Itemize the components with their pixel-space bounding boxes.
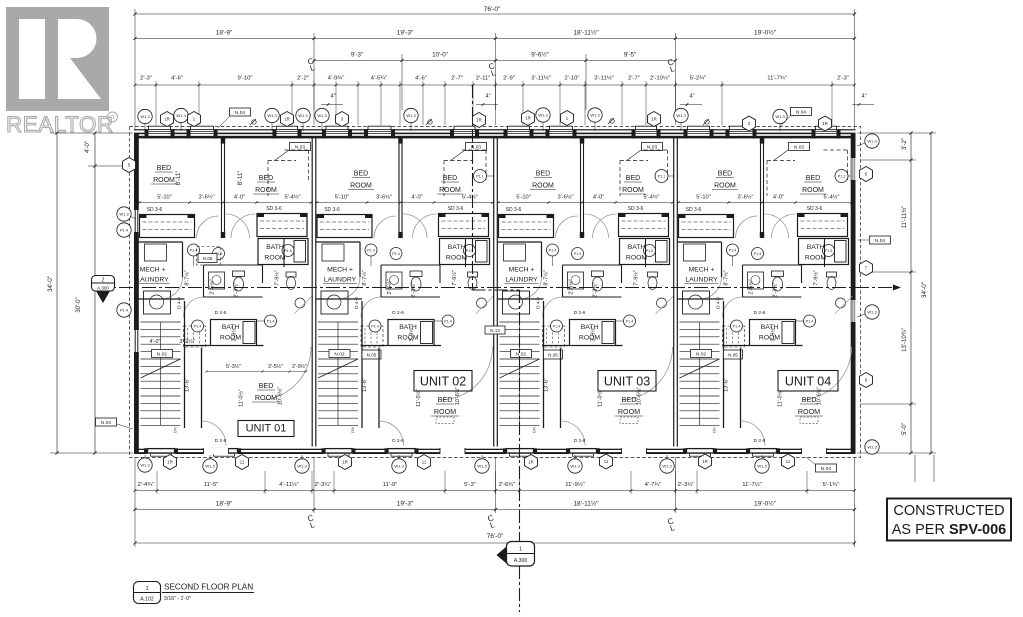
dashed closet outline unit 01 xyxy=(268,160,296,162)
tag W1.3 top at 181 xyxy=(180,123,182,132)
svg-text:LAUNDRY: LAUNDRY xyxy=(324,277,357,284)
svg-text:3'-2": 3'-2" xyxy=(902,138,908,150)
washer dryer unit 02 xyxy=(321,291,348,314)
svg-text:N.04: N.04 xyxy=(821,466,831,472)
dimension row overall 76ft bottom xyxy=(135,542,855,544)
bedroom walls unit 03 xyxy=(560,348,562,428)
svg-text:8'-7½": 8'-7½" xyxy=(361,270,368,285)
WC fixtures unit 01 xyxy=(209,272,225,289)
svg-text:D 2-6: D 2-6 xyxy=(574,310,586,316)
WC fixtures unit 04 xyxy=(748,272,764,289)
tag 1 top at 567 xyxy=(561,111,574,126)
svg-text:P1.5: P1.5 xyxy=(825,249,832,253)
WC room unit 02 xyxy=(381,264,440,266)
svg-text:2'-3": 2'-3" xyxy=(837,76,849,82)
bedroom door arc unit 02 xyxy=(441,347,493,400)
bedroom divider wall unit 03 xyxy=(580,138,582,238)
bedroom door arc unit 04 xyxy=(803,347,852,400)
svg-text:1R: 1R xyxy=(528,460,534,465)
svg-text:10'-6½": 10'-6½" xyxy=(454,387,461,405)
tag W1.3 top at 595 xyxy=(594,122,596,131)
dimension column segments right xyxy=(910,133,912,453)
svg-text:2'-10": 2'-10" xyxy=(564,76,579,82)
closet right unit 01 xyxy=(257,214,307,237)
bedroom dim string unit 01 xyxy=(207,371,307,373)
svg-text:DN: DN xyxy=(532,427,537,433)
P1.1 circle unit 04 xyxy=(835,170,848,183)
svg-text:4'-0": 4'-0" xyxy=(234,195,245,201)
tag 11 bottom at 424 xyxy=(418,455,431,470)
svg-text:P1.1: P1.1 xyxy=(658,175,665,179)
svg-text:W1.3: W1.3 xyxy=(538,113,548,118)
svg-text:ROOM: ROOM xyxy=(798,407,820,416)
stair enclosure unit 03 xyxy=(543,301,545,428)
svg-text:2'-9": 2'-9" xyxy=(503,76,515,82)
svg-text:2'-3¼": 2'-3¼" xyxy=(678,482,695,488)
svg-text:N.02: N.02 xyxy=(157,351,167,357)
svg-text:P1.4: P1.4 xyxy=(120,308,129,313)
dimension row detail bottom xyxy=(135,490,855,492)
svg-text:W1.3: W1.3 xyxy=(775,114,785,119)
svg-text:SD 3-6: SD 3-6 xyxy=(506,207,522,213)
svg-text:7'-9½": 7'-9½" xyxy=(451,270,458,285)
washer dryer unit 01 xyxy=(144,291,171,314)
hall arc mid unit 03 xyxy=(543,297,563,317)
powder wall unit 02 xyxy=(465,238,467,267)
svg-text:ROOM: ROOM xyxy=(255,187,277,194)
svg-text:A.300: A.300 xyxy=(514,558,528,564)
svg-text:1R: 1R xyxy=(476,118,482,123)
svg-text:8'-7½": 8'-7½" xyxy=(184,270,191,285)
svg-text:2'-5½": 2'-5½" xyxy=(748,279,755,294)
svg-text:2'-2": 2'-2" xyxy=(297,76,309,82)
stair enclosure unit 04 xyxy=(723,301,725,428)
svg-text:D 2-6: D 2-6 xyxy=(754,310,766,316)
svg-text:P1.5: P1.5 xyxy=(646,249,653,253)
svg-text:P1.4: P1.4 xyxy=(806,320,813,324)
svg-text:4'-0": 4'-0" xyxy=(593,195,604,201)
mech door arc unit 01 xyxy=(161,277,183,299)
svg-text:P1.1: P1.1 xyxy=(476,175,483,179)
bedroom door arc right of divider unit 02 xyxy=(403,214,427,238)
mech door arc unit 03 xyxy=(520,277,542,299)
svg-text:9'-10": 9'-10" xyxy=(237,76,252,82)
tag 11 bottom at 788 xyxy=(782,454,795,469)
svg-text:ROOM: ROOM xyxy=(153,177,175,184)
svg-text:2'-4¾": 2'-4¾" xyxy=(138,482,155,488)
svg-text:MECH +: MECH + xyxy=(327,267,353,274)
mech room walls unit 04 xyxy=(678,241,722,243)
svg-text:ROOM: ROOM xyxy=(532,183,554,190)
svg-text:SD 3-6: SD 3-6 xyxy=(266,206,282,212)
svg-text:BED: BED xyxy=(259,381,274,390)
closet left unit 04 xyxy=(679,215,734,238)
svg-text:ROOM: ROOM xyxy=(622,187,644,194)
linen closet dashed unit 02 xyxy=(361,326,383,347)
tag W1.3 top at 272 xyxy=(271,123,273,132)
plumbing circles P1.4 unit 04 xyxy=(727,244,739,256)
tag W1.3 top at 681 xyxy=(680,123,682,132)
svg-text:7'-9½": 7'-9½" xyxy=(274,270,281,285)
svg-text:2'-3½": 2'-3½" xyxy=(592,282,599,297)
svg-text:N.03: N.03 xyxy=(794,144,804,150)
svg-text:10'-6½": 10'-6½" xyxy=(277,387,284,405)
svg-text:W1.3: W1.3 xyxy=(317,113,327,118)
svg-text:W1.3: W1.3 xyxy=(267,113,277,118)
tag W1.3 bottom at 667 xyxy=(666,455,668,459)
svg-text:BED: BED xyxy=(438,395,453,404)
svg-text:ROOM: ROOM xyxy=(446,255,467,262)
svg-text:13'-6": 13'-6" xyxy=(724,378,730,392)
lower bathroom unit 01 xyxy=(211,320,257,346)
tag 1 top at 194 xyxy=(188,112,201,127)
svg-text:SD 3-6: SD 3-6 xyxy=(448,206,464,212)
svg-text:5'-10": 5'-10" xyxy=(157,195,172,201)
svg-text:BED: BED xyxy=(802,395,817,404)
mech room walls unit 02 xyxy=(316,241,360,243)
svg-text:P1.4: P1.4 xyxy=(549,249,556,253)
svg-text:P1.4: P1.4 xyxy=(120,228,129,233)
svg-text:2'-3": 2'-3" xyxy=(140,76,152,82)
plumbing circles lower unit 02 xyxy=(369,320,381,332)
extension lines right xyxy=(857,132,936,134)
hall arc mid unit 04 xyxy=(723,297,743,317)
WC room unit 03 xyxy=(563,264,622,266)
powder fixtures unit 02 xyxy=(468,272,478,277)
svg-text:BATH: BATH xyxy=(448,244,466,251)
svg-text:11'-0½": 11'-0½" xyxy=(597,389,604,407)
bedroom walls unit 01 xyxy=(201,348,203,428)
svg-text:W1.3: W1.3 xyxy=(140,114,150,119)
svg-text:8'-11": 8'-11" xyxy=(176,171,182,186)
bottom exterior wall xyxy=(134,449,856,450)
svg-text:W1.3: W1.3 xyxy=(590,113,600,118)
N.03 note box unit 04 xyxy=(789,143,810,151)
svg-text:2'-3½": 2'-3½" xyxy=(233,282,240,297)
note N.13 box xyxy=(485,326,505,334)
svg-text:N.05: N.05 xyxy=(548,352,558,357)
svg-text:P1.4: P1.4 xyxy=(392,252,399,256)
tag W1.3 bottom at 302 xyxy=(301,455,303,459)
svg-text:5'-4½": 5'-4½" xyxy=(823,194,839,201)
svg-text:11'-11½": 11'-11½" xyxy=(901,206,908,229)
svg-text:4'-7¼": 4'-7¼" xyxy=(645,482,662,488)
svg-text:N.04: N.04 xyxy=(235,110,245,116)
svg-text:3'-5½": 3'-5½" xyxy=(268,363,283,370)
P1.1 circle unit 02 xyxy=(474,170,487,183)
tag 3 top at 749 xyxy=(743,116,756,131)
bedroom door arc right of divider unit 04 xyxy=(765,214,789,238)
svg-text:CONSTRUCTED: CONSTRUCTED xyxy=(893,503,1004,519)
svg-text:11: 11 xyxy=(604,459,609,464)
svg-text:4'-9¾": 4'-9¾" xyxy=(328,76,345,82)
dimension row unit widths top xyxy=(135,38,855,40)
svg-text:W1.3: W1.3 xyxy=(662,464,672,469)
right exterior wall xyxy=(851,133,856,453)
party wall left of unit 02 xyxy=(311,137,313,447)
svg-text:2'-5½": 2'-5½" xyxy=(568,279,575,294)
svg-text:BATH: BATH xyxy=(266,244,284,251)
svg-text:4'-0": 4'-0" xyxy=(411,195,422,201)
tag W1.3 top at 145 xyxy=(144,124,146,132)
svg-text:3'-9½": 3'-9½" xyxy=(770,326,777,341)
svg-text:ROOM: ROOM xyxy=(434,407,456,416)
svg-text:5'-3": 5'-3" xyxy=(464,482,476,488)
unit label box 03 xyxy=(598,371,656,392)
svg-text:13'-6": 13'-6" xyxy=(185,378,191,392)
stair note N.02 unit 01 xyxy=(152,350,173,358)
upper bathroom unit 04 xyxy=(799,239,849,265)
unit label box 01 xyxy=(238,421,294,437)
svg-text:D 2-8: D 2-8 xyxy=(392,438,404,444)
svg-text:1R: 1R xyxy=(702,459,708,464)
svg-text:11'-7¾": 11'-7¾" xyxy=(767,76,786,82)
svg-text:N.03: N.03 xyxy=(295,144,305,150)
svg-text:W1.3: W1.3 xyxy=(867,139,877,144)
svg-text:11: 11 xyxy=(240,460,245,465)
tag 1R bottom at 531 xyxy=(525,455,538,470)
svg-text:2: 2 xyxy=(102,278,105,284)
dashed closet outline unit 02 xyxy=(444,160,472,162)
svg-text:19'-3": 19'-3" xyxy=(397,30,414,37)
horizontal centerline xyxy=(96,287,901,289)
windows bottom wall xyxy=(147,448,175,454)
unit label box 02 xyxy=(414,371,472,392)
tag 1R top at 654 xyxy=(648,112,661,127)
svg-text:W1.3: W1.3 xyxy=(477,464,487,469)
svg-text:3'-11½": 3'-11½" xyxy=(594,75,613,82)
svg-text:A.102: A.102 xyxy=(140,597,154,603)
closet right unit 04 xyxy=(798,214,848,237)
svg-text:UNIT 03: UNIT 03 xyxy=(604,375,650,389)
windows right wall xyxy=(851,158,855,180)
svg-text:19'-3": 19'-3" xyxy=(397,501,414,508)
tag N.04 bottom at 826 xyxy=(816,464,837,472)
svg-text:BATH: BATH xyxy=(807,244,825,251)
svg-text:W1.3: W1.3 xyxy=(119,212,129,217)
svg-text:1R: 1R xyxy=(284,117,290,122)
bedroom door arc right of divider unit 03 xyxy=(585,214,609,238)
upper bathroom unit 01 xyxy=(258,239,308,265)
hall arc mid unit 02 xyxy=(361,297,381,317)
svg-text:1: 1 xyxy=(519,547,522,553)
entry door bottom unit 04 xyxy=(802,448,827,454)
dimension row overall 76ft top xyxy=(135,13,855,15)
svg-text:3'-11½": 3'-11½" xyxy=(531,75,550,82)
svg-text:4'-5¼": 4'-5¼" xyxy=(371,76,388,82)
tag 1R top at 167 xyxy=(161,112,174,127)
svg-text:D 4-0: D 4-0 xyxy=(177,297,183,309)
entry door bottom unit 03 xyxy=(622,448,647,454)
lower bathroom unit 02 xyxy=(388,320,434,346)
svg-text:DN: DN xyxy=(173,427,178,433)
party wall left of unit 03 xyxy=(493,137,495,447)
svg-text:R: R xyxy=(110,115,115,122)
tag W1.3 bottom at 145 xyxy=(144,455,146,458)
tag 1R top at 479 xyxy=(473,113,486,128)
svg-text:N.02: N.02 xyxy=(516,351,526,357)
dashed closet outline unit 03 xyxy=(620,160,648,162)
powder fixtures unit 01 xyxy=(286,272,296,277)
svg-text:D 2-8: D 2-8 xyxy=(754,438,766,444)
svg-text:AS PER SPV-006: AS PER SPV-006 xyxy=(892,522,1006,538)
stair note N.05 unit 02 xyxy=(362,350,381,359)
svg-text:P1.4: P1.4 xyxy=(194,325,201,329)
tag W1.3 bottom at 762 xyxy=(761,455,763,459)
svg-text:1R: 1R xyxy=(525,116,531,121)
svg-text:11'-0½": 11'-0½" xyxy=(415,389,422,407)
N.04 box left xyxy=(96,418,117,426)
svg-text:5'-10": 5'-10" xyxy=(516,195,531,201)
interior dimension string unit 01 xyxy=(139,202,313,204)
section marker 1/A.300 bottom xyxy=(507,542,535,567)
svg-text:8'-11": 8'-11" xyxy=(238,171,244,186)
side tags right xyxy=(865,134,879,148)
svg-text:76'-0": 76'-0" xyxy=(484,6,501,13)
plumbing circles lower unit 04 xyxy=(731,320,743,332)
svg-text:18'-9": 18'-9" xyxy=(216,30,233,37)
svg-text:W1.3: W1.3 xyxy=(140,463,150,468)
svg-text:ROOM: ROOM xyxy=(805,255,826,262)
svg-text:W1.3: W1.3 xyxy=(298,113,308,118)
svg-text:3'-6½": 3'-6½" xyxy=(376,194,392,201)
dimension column 34ft right xyxy=(930,133,932,453)
svg-text:3'-6½": 3'-6½" xyxy=(198,194,214,201)
svg-text:1R: 1R xyxy=(822,121,828,126)
plumbing circles lower unit 03 xyxy=(551,320,563,332)
tag W1.3 top at 780 xyxy=(779,124,781,132)
plumbing circles P1.4 unit 03 xyxy=(547,244,559,256)
svg-text:3'-6½": 3'-6½" xyxy=(737,194,753,201)
svg-text:5'-10": 5'-10" xyxy=(696,195,711,201)
svg-text:D 4-0: D 4-0 xyxy=(536,297,542,309)
stair treads unit 01 xyxy=(141,321,181,323)
svg-text:BED: BED xyxy=(806,175,820,182)
svg-text:ROOM: ROOM xyxy=(714,183,736,190)
dashed closet outline unit 04 xyxy=(767,160,795,162)
svg-text:W1.3: W1.3 xyxy=(406,113,416,118)
top exterior wall xyxy=(134,129,856,130)
washer dryer unit 03 xyxy=(503,291,530,314)
tag W1.3 bottom at 399 xyxy=(398,455,400,459)
svg-text:2'-7": 2'-7" xyxy=(451,76,463,82)
svg-text:4'-0": 4'-0" xyxy=(85,141,91,153)
svg-text:P1.4: P1.4 xyxy=(733,325,740,329)
svg-text:UNIT 04: UNIT 04 xyxy=(785,375,831,389)
svg-text:LAUNDRY: LAUNDRY xyxy=(685,277,718,284)
svg-text:5'-2¼": 5'-2¼" xyxy=(690,76,707,82)
svg-text:SECOND FLOOR PLAN: SECOND FLOOR PLAN xyxy=(164,583,253,592)
svg-text:2'-6¾": 2'-6¾" xyxy=(499,482,516,488)
svg-text:SD 3-6: SD 3-6 xyxy=(147,207,163,213)
section line vertical jogged xyxy=(472,85,474,290)
N.03 note box unit 01 xyxy=(290,143,311,151)
svg-text:N.05: N.05 xyxy=(367,352,377,357)
powder fixtures unit 04 xyxy=(827,272,837,277)
bedroom door arc unit 01 xyxy=(264,347,312,400)
dimension column 34ft left xyxy=(56,133,58,453)
svg-text:N.02: N.02 xyxy=(696,351,706,357)
svg-text:3'-2½": 3'-2½" xyxy=(179,338,194,345)
svg-text:P1.5: P1.5 xyxy=(284,249,291,253)
svg-text:BED: BED xyxy=(718,171,732,178)
svg-text:BED: BED xyxy=(157,165,171,172)
svg-text:4'-0": 4'-0" xyxy=(773,195,784,201)
svg-text:N.13: N.13 xyxy=(490,328,500,333)
WC fixtures unit 03 xyxy=(568,272,584,289)
svg-text:DN: DN xyxy=(712,427,717,433)
tag N.04 top at 240 xyxy=(230,108,251,116)
hall door arcs unit 04 xyxy=(736,216,758,238)
svg-text:4": 4" xyxy=(861,94,866,100)
svg-text:13'-6": 13'-6" xyxy=(362,378,368,392)
dimension row unit widths bottom xyxy=(135,509,855,511)
upper bathroom unit 03 xyxy=(620,239,670,265)
svg-text:MECH +: MECH + xyxy=(509,267,535,274)
svg-text:2'-5½": 2'-5½" xyxy=(209,279,216,294)
REALTOR logo R letter xyxy=(19,19,45,99)
svg-text:7'-9½": 7'-9½" xyxy=(813,270,820,285)
extension lines left xyxy=(50,132,133,134)
closet right unit 03 xyxy=(619,214,669,237)
svg-text:N.05: N.05 xyxy=(728,352,738,357)
svg-text:5'-4½": 5'-4½" xyxy=(462,194,478,201)
entry door bottom unit 01 xyxy=(204,448,229,454)
mech door arc unit 04 xyxy=(700,277,722,299)
stair treads unit 02 xyxy=(318,321,358,323)
hall arc mid unit 01 xyxy=(184,297,204,317)
svg-text:4'-11½": 4'-11½" xyxy=(279,481,298,488)
tag W1.3 bottom at 482 xyxy=(481,455,483,459)
hall door arcs unit 02 xyxy=(374,216,396,238)
tag 11 bottom at 606 xyxy=(600,454,613,469)
bedroom divider wall unit 01 xyxy=(221,138,223,238)
svg-text:2'-9½": 2'-9½" xyxy=(292,363,307,370)
svg-text:MECH +: MECH + xyxy=(140,267,166,274)
svg-text:N.03: N.03 xyxy=(647,144,657,150)
svg-text:D 4-0: D 4-0 xyxy=(354,297,360,309)
svg-text:P1.4: P1.4 xyxy=(190,249,197,253)
linen closet dashed unit 01 xyxy=(197,247,221,266)
svg-text:W1.3: W1.3 xyxy=(394,464,404,469)
svg-text:30'-0": 30'-0" xyxy=(76,297,82,312)
svg-text:9'-3": 9'-3" xyxy=(351,52,363,59)
svg-text:1R: 1R xyxy=(164,117,170,122)
P1.1 circle unit 03 xyxy=(655,170,668,183)
svg-text:W1.3: W1.3 xyxy=(176,113,186,118)
svg-text:BED: BED xyxy=(622,395,637,404)
svg-text:W1.3: W1.3 xyxy=(205,464,215,469)
closet left unit 03 xyxy=(499,215,554,238)
closet right unit 02 xyxy=(439,214,489,237)
svg-text:34'-0": 34'-0" xyxy=(921,282,928,298)
svg-text:18'-11½": 18'-11½" xyxy=(573,500,599,508)
svg-text:3'-6½": 3'-6½" xyxy=(557,194,573,201)
svg-text:2'-5½": 2'-5½" xyxy=(386,279,393,294)
svg-text:A.300: A.300 xyxy=(97,286,109,291)
dimension row sub top (9-3,10-0,9-6,9-5) xyxy=(314,60,676,62)
svg-text:11'-0½": 11'-0½" xyxy=(238,389,245,407)
svg-text:P1.4: P1.4 xyxy=(367,249,374,253)
closet left unit 02 xyxy=(317,215,372,238)
svg-text:9'-6½": 9'-6½" xyxy=(531,52,548,59)
svg-text:ROOM: ROOM xyxy=(626,255,647,262)
svg-text:2'-11": 2'-11" xyxy=(476,76,491,82)
stair note N.02 unit 02 xyxy=(329,350,350,358)
svg-text:ROOM: ROOM xyxy=(439,187,461,194)
svg-text:4": 4" xyxy=(330,94,335,100)
extension lines top xyxy=(134,9,136,129)
